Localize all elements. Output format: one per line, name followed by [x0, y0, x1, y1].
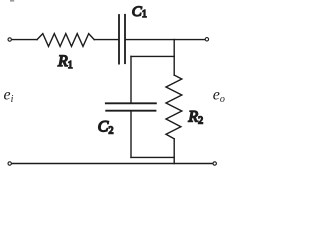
terminal: output bottom: [213, 162, 216, 165]
wire: bottom rail: [12, 163, 213, 165]
capacitor C2 (top plate): [106, 102, 156, 104]
wire: C2 bottom lead: [130, 111, 132, 157]
wire: input terminal to R1: [12, 39, 37, 41]
capacitor C1 (left plate): [118, 15, 120, 64]
wire: node A down to R2 top: [173, 40, 175, 76]
wire: R1 to C1: [94, 39, 118, 41]
wire: node A to output terminal: [174, 39, 205, 41]
svg-text:ei: ei: [4, 87, 14, 105]
wire: C2 top lead: [130, 56, 132, 103]
terminal: output top: [205, 38, 208, 41]
terminal: input bottom: [8, 162, 11, 165]
svg-text:R2: R2: [187, 108, 203, 126]
wire: R2 bottom lead to bottom rail: [173, 139, 175, 164]
capacitor C1 (right plate): [124, 15, 126, 63]
terminal: input top: [8, 38, 11, 41]
resistor R2: [166, 75, 182, 139]
svg-text:C2: C2: [98, 119, 114, 137]
resistor R1: [37, 34, 94, 47]
capacitor C2 (bottom plate): [106, 110, 155, 112]
wire: C2 bottom connector to R2 branch: [131, 156, 174, 158]
wire: C1 to node A: [126, 39, 174, 41]
svg-text:eo: eo: [213, 87, 225, 105]
artifact: cropped text remnant at top edge: [10, 0, 14, 2]
svg-text:R1: R1: [57, 53, 73, 71]
wire: tee junction to C2 branch (horizontal): [131, 55, 174, 57]
svg-text:C1: C1: [132, 4, 147, 20]
